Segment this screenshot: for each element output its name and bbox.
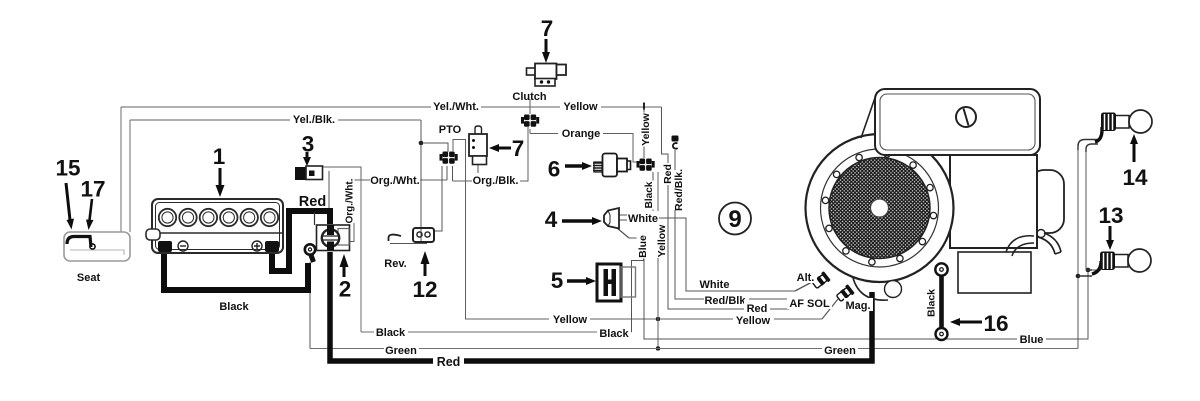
rotated label Yellow (clutch drop) — [640, 112, 653, 146]
svg-text:Orange: Orange — [562, 128, 601, 140]
wire lamp vertical left — [1077, 146, 1079, 349]
wire label Green right — [822, 343, 858, 357]
wire label Yellow bottom left — [549, 312, 590, 326]
arrow to seat 17 — [90, 199, 93, 220]
svg-text:Red: Red — [299, 194, 326, 210]
node junction green x658 — [656, 346, 661, 351]
rotated label Blue (column) — [637, 235, 650, 259]
headlight 14 — [1101, 110, 1152, 133]
wire to PTO top — [421, 143, 448, 152]
wire Black from ignition connector — [652, 172, 654, 218]
wire seat drop right — [129, 120, 131, 232]
svg-text:Black: Black — [376, 327, 406, 339]
wire label Yel./Blk. — [290, 112, 338, 126]
label Mag. — [844, 298, 873, 312]
wire label Yel./Wht. — [431, 99, 481, 113]
svg-text:AF SOL: AF SOL — [789, 298, 830, 310]
svg-text:Seat: Seat — [77, 272, 101, 284]
svg-text:Mag.: Mag. — [845, 300, 870, 312]
arrow to switch 6 — [565, 164, 583, 167]
arrow to rev 12 — [424, 263, 427, 276]
svg-text:Alt.: Alt. — [797, 272, 815, 284]
wire Green bottom — [310, 348, 1078, 350]
svg-text:Black: Black — [599, 328, 629, 340]
wire yellow-green link x658 — [657, 172, 659, 349]
svg-text:Black: Black — [644, 181, 655, 208]
wire green stem from ring terminal — [309, 262, 311, 349]
svg-text:15: 15 — [55, 156, 80, 181]
wire Yellow long: PTO up-over-down and bottom run — [453, 140, 822, 320]
node junction yellow x658 — [656, 317, 661, 322]
rotated label Org./Wht. — [344, 178, 356, 223]
rotated label Black (ignition) — [643, 181, 655, 210]
seat switch contact 15/17 — [67, 237, 95, 250]
alternator plug — [811, 271, 831, 290]
wire lamp13 elbows — [1078, 270, 1092, 276]
wire label Blue — [1017, 332, 1046, 346]
wire Org./Wht. vertical to solenoid — [347, 180, 354, 242]
engine assembly — [806, 89, 1065, 300]
rotated label Yellow (column) — [656, 224, 669, 258]
wire label Org./Wht. — [370, 173, 420, 187]
svg-text:12: 12 — [412, 277, 437, 302]
wire Org./Blk. — [453, 127, 529, 181]
svg-text:White: White — [628, 213, 658, 225]
svg-text:Yellow: Yellow — [563, 101, 598, 113]
svg-text:4: 4 — [545, 207, 558, 232]
svg-text:Org./Wht.: Org./Wht. — [345, 178, 356, 223]
wire label Green left — [384, 343, 419, 357]
ignition switch 6 — [593, 154, 631, 177]
wire label Red/Blk. engine — [704, 294, 749, 307]
svg-text:Yel./Blk.: Yel./Blk. — [293, 114, 335, 126]
wire PTO to Rev switch — [434, 166, 442, 231]
svg-text:Org./Wht.: Org./Wht. — [370, 175, 420, 187]
wire lamp vertical right — [1085, 148, 1087, 270]
engine lower box — [958, 252, 1031, 293]
wire item3 to Org./Wht. — [322, 167, 361, 180]
node junction blue lamp — [1086, 268, 1091, 273]
cable battery positive thick red — [272, 211, 330, 271]
svg-text:Red: Red — [747, 303, 768, 315]
node junction 421,143 — [419, 141, 424, 146]
arrow to lamp 14 — [1133, 143, 1136, 162]
wire ground drop x361 — [360, 180, 362, 332]
svg-text:Blue: Blue — [637, 235, 649, 258]
wire label Yellow top — [560, 99, 601, 113]
wire label Black left — [374, 325, 408, 339]
wire item3 drop to solenoid — [328, 171, 330, 209]
Rev switch 12 — [389, 228, 435, 242]
headlight 13 — [1100, 249, 1151, 272]
connector item 3 — [295, 166, 323, 180]
svg-text:Rev.: Rev. — [384, 258, 406, 270]
solenoid 2 — [317, 225, 350, 251]
engine starter bump — [1030, 170, 1064, 233]
label Alt. — [794, 271, 817, 284]
wire lamp14 elbows — [1078, 140, 1098, 153]
seat switch box — [64, 232, 130, 261]
svg-text:17: 17 — [80, 177, 105, 202]
wire label White engine — [698, 278, 731, 291]
battery plus symbol — [252, 241, 262, 251]
PTO switch connector — [440, 152, 458, 164]
svg-text:PTO: PTO — [439, 124, 462, 136]
svg-text:Red: Red — [437, 355, 461, 369]
svg-text:Yellow: Yellow — [736, 315, 771, 327]
svg-text:2: 2 — [339, 277, 352, 302]
arrow to solenoid 2 — [343, 266, 346, 277]
svg-text:13: 13 — [1098, 203, 1123, 228]
node tick on yellow rail — [643, 103, 645, 110]
magneto plug — [835, 284, 855, 303]
svg-text:9: 9 — [728, 206, 741, 233]
svg-text:Yellow: Yellow — [656, 224, 668, 258]
svg-text:Black: Black — [926, 289, 938, 317]
arrow to connector 3 — [306, 152, 309, 158]
module item 5 — [597, 249, 647, 301]
rotated label Red/Blk. (column) — [673, 169, 686, 211]
wire Yel./Blk. vertical x421 — [420, 120, 422, 243]
wire Yel./Wht. top rail — [121, 106, 662, 108]
node 9 circle — [719, 203, 751, 235]
svg-text:5: 5 — [551, 268, 564, 293]
engine small bolt on bump — [1037, 230, 1045, 238]
wire label Yellow bottom right — [733, 313, 774, 327]
svg-text:Green: Green — [385, 345, 417, 357]
engine fuel tank — [861, 89, 1040, 155]
wire item5 link — [632, 252, 644, 332]
wire Org./Wht. horizontal — [354, 179, 447, 181]
engine bolts — [822, 151, 936, 265]
svg-text:16: 16 — [983, 311, 1008, 336]
arrow to clutch 7 — [545, 39, 548, 53]
ring terminal ground — [305, 244, 315, 262]
battery terminal negative — [158, 241, 172, 252]
svg-text:White: White — [700, 279, 730, 291]
wire label Org./Blk. — [472, 173, 520, 187]
wire Red/Blk from breaker — [675, 150, 790, 299]
cable solenoid to starter thick red bottom — [330, 252, 872, 361]
wire Orange — [530, 134, 639, 163]
arrow to module 5 — [567, 279, 587, 282]
connector item 4 — [604, 208, 619, 229]
wire PTO left pin down — [446, 166, 448, 180]
wire label White item4 — [627, 211, 659, 225]
clutch connector (4-pin) — [521, 115, 539, 127]
ignition connector (4-pin) — [637, 159, 655, 171]
engine carb bump below — [853, 278, 888, 300]
svg-text:Clutch: Clutch — [512, 91, 547, 103]
battery 1 — [146, 199, 283, 253]
solenoid coil tap wire — [314, 212, 316, 225]
engine oil cap — [956, 107, 976, 127]
wire Yellow drop to ignition connector — [643, 109, 645, 158]
wire Blue — [617, 228, 629, 238]
svg-text:Red/Blk.: Red/Blk. — [704, 295, 748, 307]
wire label Red engine — [744, 302, 770, 315]
battery minus symbol — [178, 241, 188, 251]
arrow to strap 16 — [959, 321, 982, 324]
wire Yel./Blk. rail — [130, 119, 421, 121]
cable battery negative thick — [164, 252, 308, 290]
engine muffler curves — [1006, 236, 1034, 256]
svg-text:6: 6 — [548, 157, 561, 182]
wire label Orange — [558, 126, 603, 140]
clutch assembly 7 — [527, 64, 567, 87]
ground strap 16 — [935, 263, 947, 340]
svg-text:1: 1 — [213, 144, 226, 169]
wire PTO right pin down — [452, 166, 454, 181]
engine bolt ring — [821, 149, 939, 267]
svg-text:7: 7 — [541, 16, 554, 41]
wire seat drop left — [120, 107, 122, 232]
label AF SOL — [787, 296, 832, 310]
engine center hub — [871, 199, 889, 217]
circuit breaker (small) — [672, 136, 679, 149]
wire Black bottom — [361, 331, 632, 333]
wire clutch connector stubs — [529, 99, 531, 134]
engine exhaust elbow — [1038, 233, 1061, 254]
rotated label Red (column) — [662, 163, 675, 185]
engine blower housing circle — [806, 134, 954, 282]
svg-text:Blue: Blue — [1020, 334, 1044, 346]
svg-text:Black: Black — [219, 301, 249, 313]
arrow to connector 4 — [562, 219, 593, 222]
wire Rev underline — [390, 243, 427, 245]
svg-text:Green: Green — [824, 345, 856, 357]
svg-text:Yellow: Yellow — [640, 112, 652, 146]
battery terminal positive — [265, 241, 279, 252]
engine mesh screen — [829, 158, 930, 259]
arrow to lamp 13 — [1109, 226, 1112, 241]
svg-text:Red/Blk.: Red/Blk. — [673, 169, 685, 211]
wire label Black right — [597, 326, 631, 340]
engine block — [950, 155, 1037, 248]
arrow to seat 15 — [66, 183, 70, 220]
fuse holder 7 — [469, 126, 487, 165]
svg-text:Org./Blk.: Org./Blk. — [473, 175, 519, 187]
rotated label Black (strap16) — [925, 289, 938, 318]
wire label Red bottom — [433, 354, 464, 369]
arrow to fuse 7 — [498, 147, 511, 150]
wire fuse7 stem — [477, 164, 479, 181]
svg-text:14: 14 — [1122, 165, 1148, 190]
svg-text:Yel./Wht.: Yel./Wht. — [433, 101, 479, 113]
wire White from item4 — [619, 215, 795, 291]
svg-text:Yellow: Yellow — [553, 314, 588, 326]
node junction lamp left — [1076, 274, 1081, 279]
wire Red vertical with jog — [662, 107, 790, 309]
svg-text:7: 7 — [512, 136, 525, 161]
arrow to battery 1 — [219, 168, 222, 186]
